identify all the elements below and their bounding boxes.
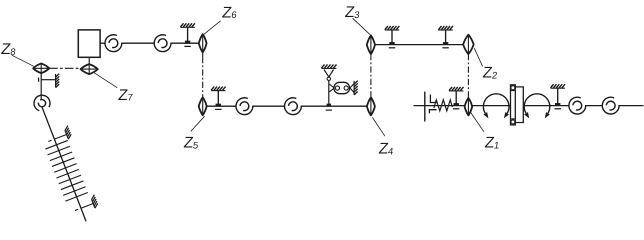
shaft II segment coupling to gear Z6 <box>171 42 207 44</box>
shaft I segment motor to coupling <box>100 42 105 44</box>
coupling C5 <box>569 97 586 114</box>
leader line Z3 <box>353 18 370 34</box>
shaft VI left stub <box>414 105 511 107</box>
nut body on screw <box>511 85 524 125</box>
shaft V Z3 to Z2 <box>375 44 463 46</box>
vertical shaft Z8 down to coupling <box>40 73 42 100</box>
clutch wall <box>424 92 426 122</box>
clutch jaw bottom <box>429 110 436 114</box>
rotation arrow left of nut <box>483 94 509 119</box>
governor pivot circle <box>327 77 330 80</box>
coupling C1 <box>105 35 122 52</box>
shaft right end <box>619 105 643 107</box>
bearing wall hatch <box>56 74 60 88</box>
governor vertical shaft <box>328 81 330 107</box>
governor cone support <box>324 70 334 77</box>
lead screw bearing upper <box>48 126 71 142</box>
bearing of shaft III <box>215 91 221 110</box>
label Z7 <box>117 87 134 104</box>
bearing of shaft VI <box>453 91 459 109</box>
governor ground hatch <box>321 64 336 68</box>
bearing of vertical shaft <box>39 78 56 82</box>
label Z5 <box>183 135 200 152</box>
governor oval body <box>334 82 350 93</box>
bearing of shaft V right <box>442 30 448 48</box>
label Z1 <box>484 135 501 152</box>
bearing of shaft III ground hatch <box>211 87 226 91</box>
coupling C2 <box>154 35 171 52</box>
leader line Z4 <box>372 117 385 136</box>
bearing of shaft II <box>184 27 190 46</box>
shaft VI right segment <box>523 105 568 107</box>
nut ball bottom <box>511 120 515 124</box>
label Z6 <box>221 4 238 21</box>
chain drive line Z3 to Z4 <box>370 54 372 98</box>
gear Z1 <box>465 98 473 115</box>
governor right cone <box>350 84 354 93</box>
lead screw bearing lower <box>75 195 98 211</box>
lead screw thread ticks <box>45 140 87 201</box>
shaft I segment between couplings <box>122 42 154 44</box>
sprocket Z8 <box>33 63 49 73</box>
chain drive line Z8 to Z7 <box>49 67 81 69</box>
sprocket Z4 <box>367 97 375 115</box>
motor M <box>78 30 100 57</box>
leader line Z2 <box>474 48 482 66</box>
leader line Z8 <box>12 55 34 66</box>
coupling C3 <box>236 98 253 115</box>
chain drive line Z2 to Z1 <box>467 54 469 98</box>
rotation arrow right of nut <box>524 94 550 119</box>
coupling C6 <box>602 97 619 114</box>
nut ball top <box>511 86 515 90</box>
label Z8 <box>0 41 17 58</box>
shaft segment between right couplings <box>586 105 602 107</box>
leader line Z6 <box>204 21 221 35</box>
sprocket Z6 <box>199 34 207 57</box>
shaft III middle segment <box>253 105 285 107</box>
sprocket Z5 <box>199 97 207 115</box>
governor left cone <box>329 84 334 92</box>
label Z2 <box>482 65 499 82</box>
bearing of screw shaft ground hatch <box>551 84 566 88</box>
leader line Z7 <box>94 73 117 88</box>
coupling C4 <box>285 98 302 115</box>
governor wall hatch <box>354 81 358 95</box>
chain drive line Z6 to Z5 <box>202 57 204 97</box>
label Z3 <box>344 4 361 21</box>
coupling C7 on vertical shaft <box>34 95 50 111</box>
sprocket Z2 <box>463 35 474 54</box>
shaft IV segment to gear Z4 <box>301 105 367 107</box>
bearing of screw shaft <box>555 88 561 109</box>
shaft III segment Z5 to coupling <box>207 105 236 107</box>
clutch spring <box>434 100 452 111</box>
bearing of shaft V left <box>389 30 395 48</box>
lead screw shaft <box>42 107 86 221</box>
bearing of shaft VI ground hatch <box>449 87 464 91</box>
sprocket Z3 <box>367 35 375 54</box>
governor ball left <box>335 86 339 90</box>
label Z4 <box>378 141 396 158</box>
bearing of shaft V left ground hatch <box>385 26 400 30</box>
leader line Z1 <box>471 113 484 132</box>
leader line Z5 <box>191 116 205 131</box>
governor ball right <box>344 86 348 90</box>
sprocket Z7 <box>81 57 98 74</box>
bearing of shaft II ground hatch <box>180 23 195 27</box>
bearing of shaft V right ground hatch <box>438 26 453 30</box>
clutch jaw top <box>430 95 437 103</box>
